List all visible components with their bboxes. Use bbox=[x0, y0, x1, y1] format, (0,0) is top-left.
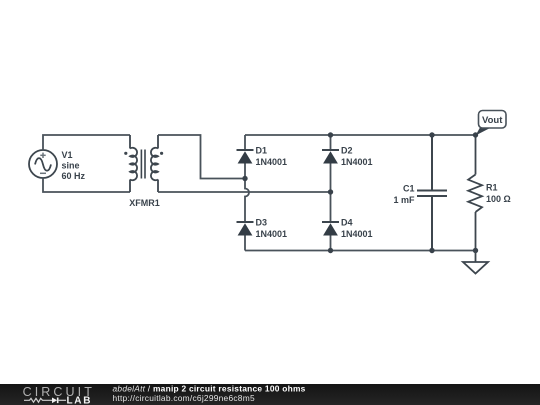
CircuitLab logo: diode symbol bbox=[52, 398, 66, 404]
ground bbox=[463, 251, 488, 274]
wire: secondary bottom to bridge right column bbox=[158, 191, 331, 193]
wire: top rail bbox=[245, 134, 476, 136]
junction: secondary bottom on bridge right column bbox=[328, 189, 333, 194]
diode D2 bbox=[322, 150, 339, 164]
capacitor C1 bbox=[417, 135, 447, 251]
junction: capacitor top rail bbox=[429, 132, 434, 137]
resistor R1 bbox=[468, 135, 482, 251]
diode D3 bbox=[237, 222, 254, 236]
svg-text:http://circuitlab.com/c6j299ne: http://circuitlab.com/c6j299ne6c8m5 bbox=[113, 393, 255, 403]
transformer XFMR1 bbox=[124, 135, 163, 192]
wire: bottom rail bbox=[245, 250, 476, 252]
wire: secondary top to bridge left bbox=[158, 135, 245, 179]
svg-text:D2: D2 bbox=[341, 146, 353, 156]
svg-text:60 Hz: 60 Hz bbox=[62, 171, 86, 181]
net flag Vout bbox=[476, 111, 507, 136]
svg-text:1N4001: 1N4001 bbox=[341, 229, 373, 239]
svg-text:D4: D4 bbox=[341, 218, 353, 228]
svg-text:100 Ω: 100 Ω bbox=[486, 194, 511, 204]
svg-text:1N4001: 1N4001 bbox=[341, 157, 373, 167]
junction: ground node on bottom rail bbox=[473, 248, 478, 253]
wire: V1 bottom to transformer primary bbox=[43, 178, 130, 192]
wire: V1 top to transformer primary bbox=[43, 135, 130, 150]
svg-text:1 mF: 1 mF bbox=[393, 195, 415, 205]
svg-text:C1: C1 bbox=[403, 184, 415, 194]
svg-text:1N4001: 1N4001 bbox=[256, 229, 288, 239]
svg-text:Vout: Vout bbox=[482, 115, 503, 126]
voltage source V1 bbox=[29, 150, 57, 178]
svg-text:D3: D3 bbox=[256, 218, 268, 228]
junction: bridge right column bottom rail bbox=[328, 248, 333, 253]
junction: Vout node on top rail bbox=[473, 132, 478, 137]
wire: bridge left column with hop bbox=[245, 135, 249, 251]
svg-text:abdelAtt / manip 2 circuit res: abdelAtt / manip 2 circuit resistance 10… bbox=[113, 384, 306, 394]
diode D1 bbox=[237, 150, 254, 164]
junction: bridge right column top rail bbox=[328, 132, 333, 137]
svg-text:V1: V1 bbox=[62, 150, 73, 160]
junction: capacitor bottom rail bbox=[429, 248, 434, 253]
svg-text:1N4001: 1N4001 bbox=[256, 157, 288, 167]
CircuitLab logo: resistor symbol bbox=[24, 398, 52, 402]
svg-text:LAB: LAB bbox=[67, 395, 93, 405]
svg-text:D1: D1 bbox=[256, 146, 268, 156]
svg-text:sine: sine bbox=[62, 161, 80, 171]
svg-text:R1: R1 bbox=[486, 183, 498, 193]
junction: secondary top on bridge left column bbox=[242, 176, 247, 181]
footer bar bbox=[0, 384, 540, 405]
svg-text:XFMR1: XFMR1 bbox=[129, 198, 160, 208]
wire: bridge right column bbox=[330, 135, 332, 251]
diode D4 bbox=[322, 222, 339, 236]
